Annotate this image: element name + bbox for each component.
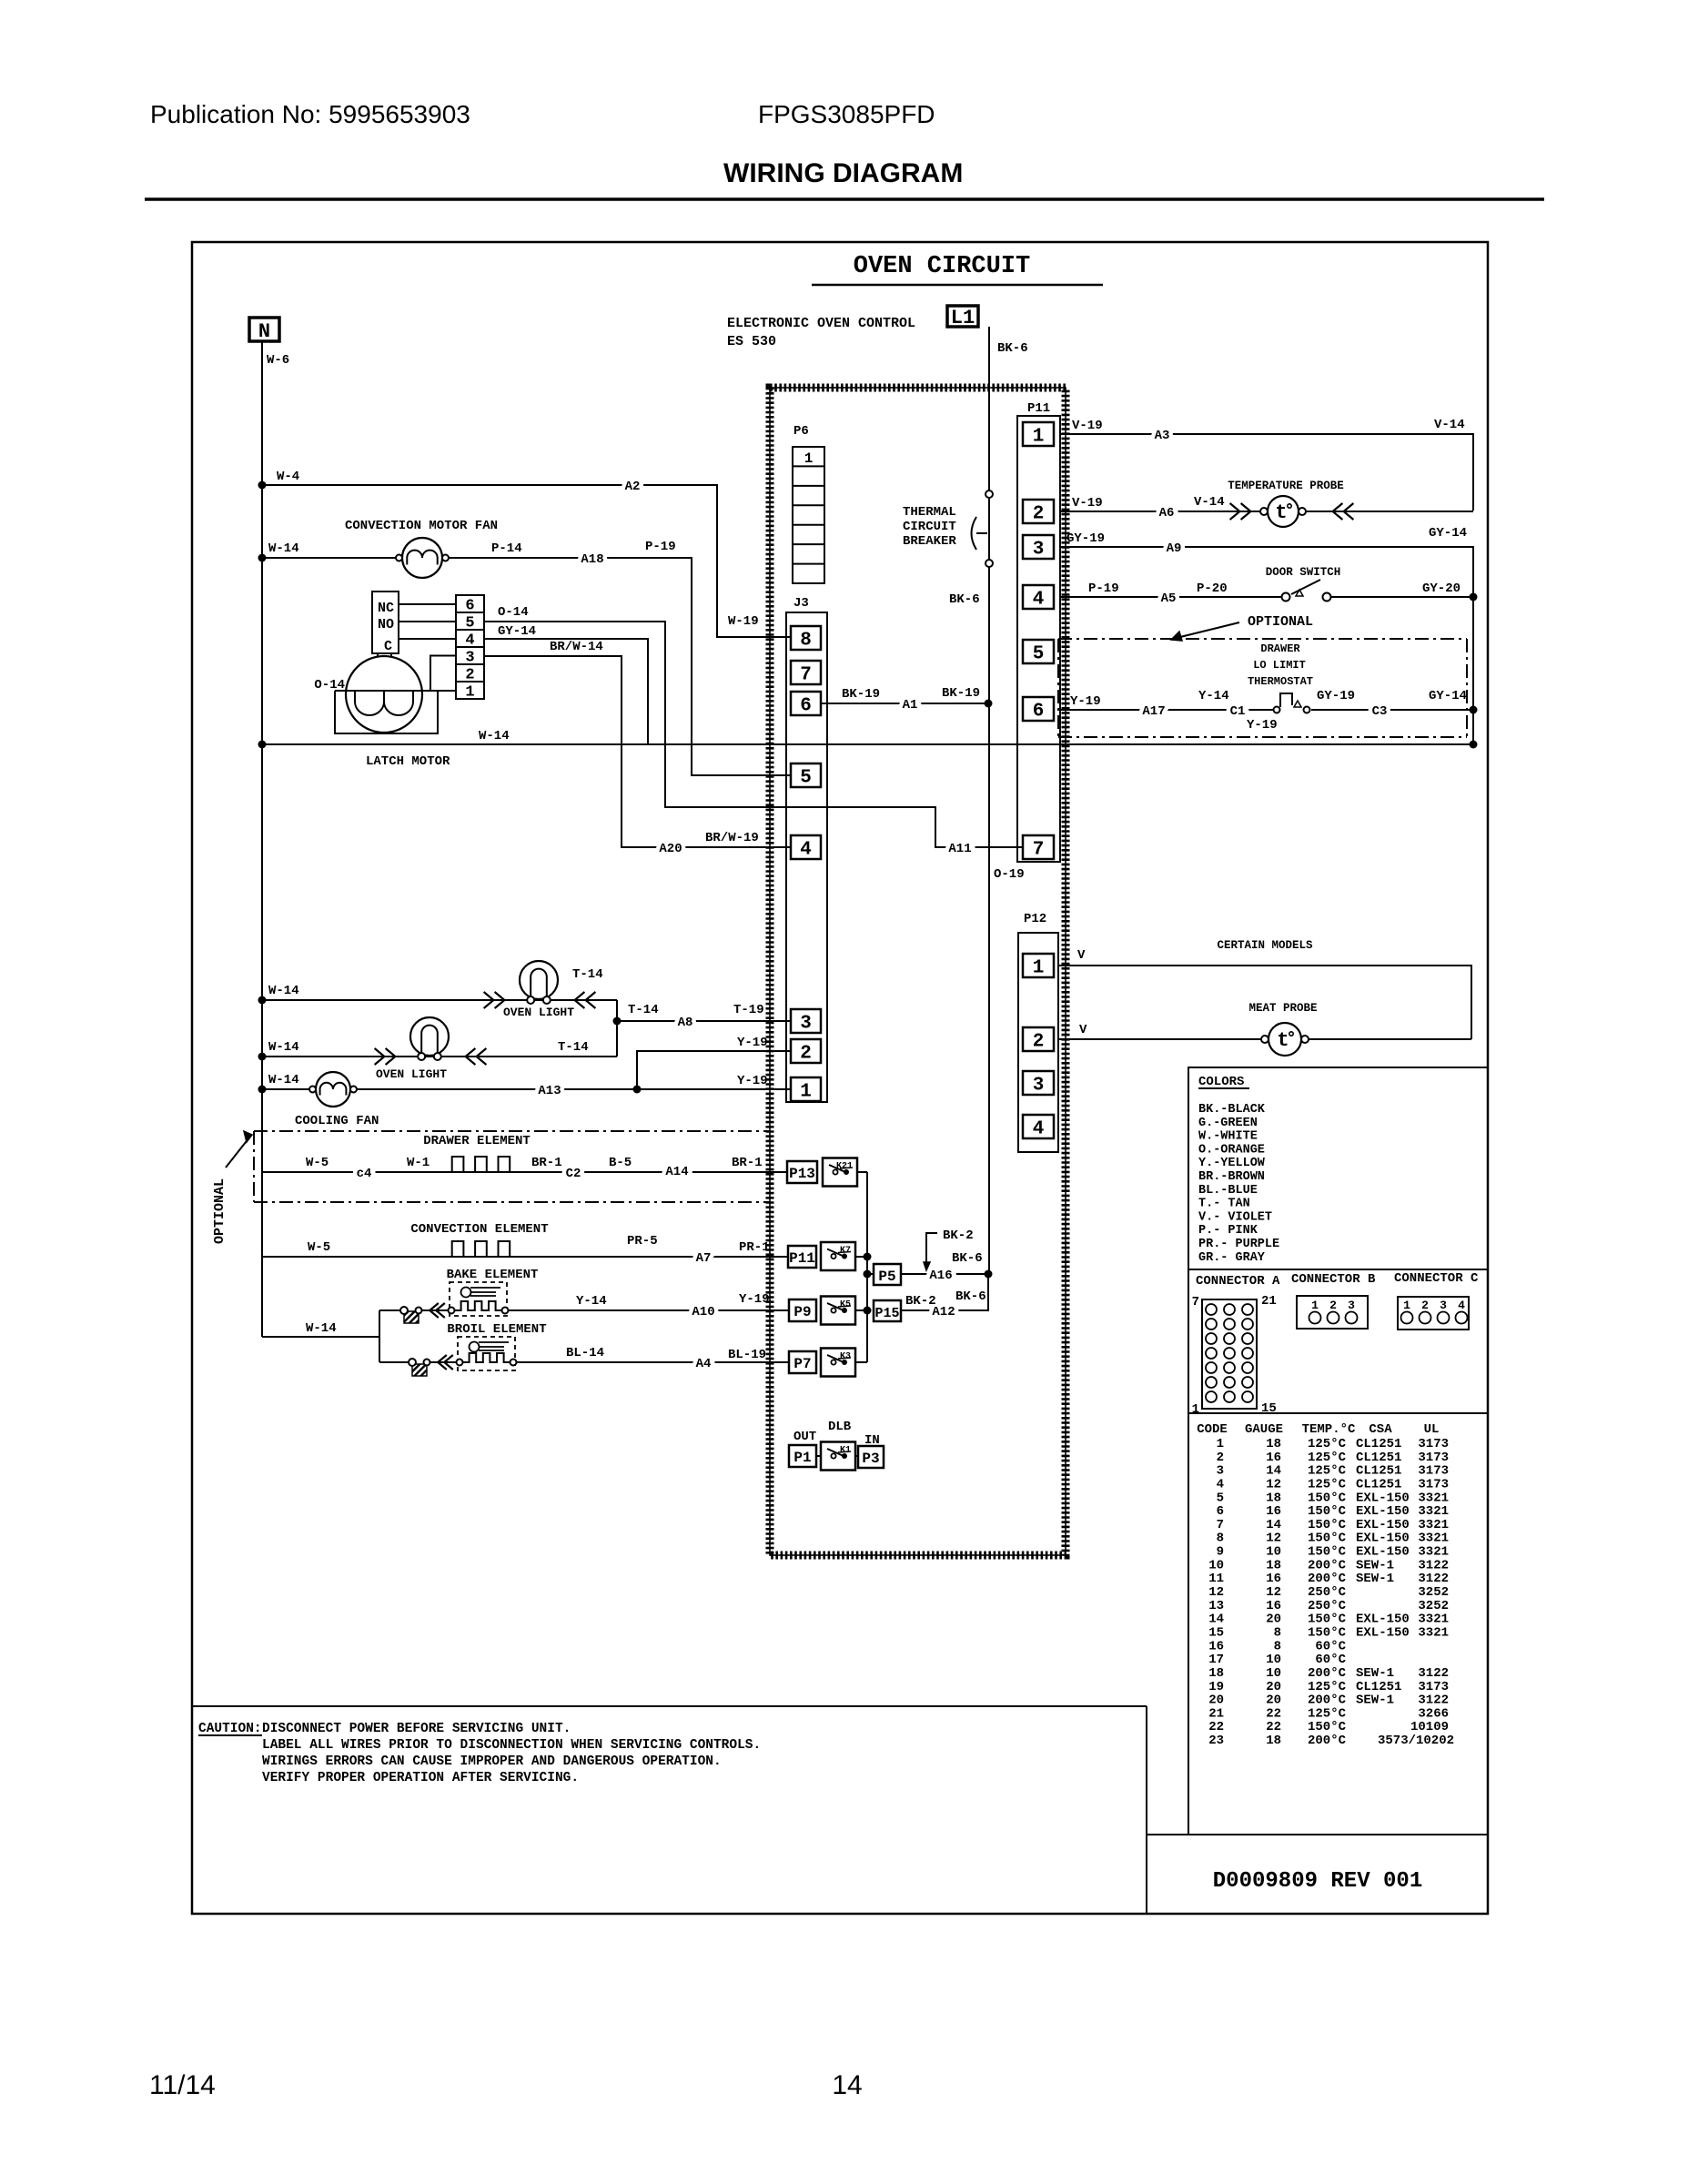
wire W-6 left bus [262,341,289,1337]
svg-text:A8: A8 [678,1016,693,1030]
svg-text:20: 20 [1208,1694,1224,1708]
OVEN CIRCUIT title [812,253,1103,285]
svg-text:3122: 3122 [1418,1694,1449,1708]
svg-text:W-14: W-14 [268,984,299,998]
svg-text:CODE: CODE [1197,1422,1228,1437]
svg-text:W.-WHITE: W.-WHITE [1198,1130,1258,1144]
svg-text:6: 6 [465,597,474,614]
svg-text:3173: 3173 [1418,1680,1449,1694]
svg-text:Y-14: Y-14 [1198,689,1229,703]
svg-text:THERMOSTAT: THERMOSTAT [1248,675,1313,688]
main border [192,242,1488,1914]
svg-text:3: 3 [465,649,474,666]
svg-text:W-14: W-14 [268,1073,299,1087]
door switch [1266,566,1341,602]
svg-text:EXL-150: EXL-150 [1356,1504,1410,1519]
svg-text:Y-19: Y-19 [1247,718,1278,733]
wire W-14 oven light 1 / T-14 [258,967,659,1057]
svg-text:4: 4 [1033,1119,1045,1140]
svg-text:COOLING FAN: COOLING FAN [295,1114,379,1128]
svg-text:T-14: T-14 [572,967,603,982]
svg-text:125°C: 125°C [1308,1477,1347,1491]
svg-text:PR-1: PR-1 [739,1240,770,1255]
svg-text:C: C [384,639,392,654]
svg-text:3: 3 [1217,1464,1224,1479]
plug P5 [867,1264,901,1285]
svg-text:P-20: P-20 [1197,581,1228,596]
colors list [1198,1075,1279,1265]
wire cell3 to latch motor [430,656,456,692]
svg-text:9: 9 [1217,1545,1224,1560]
svg-text:Y-19: Y-19 [737,1036,768,1050]
svg-text:O.-ORANGE: O.-ORANGE [1198,1143,1265,1157]
svg-text:20: 20 [1266,1613,1281,1627]
svg-text:A2: A2 [625,480,641,494]
J3 pin 5 [791,763,821,787]
svg-text:4: 4 [1458,1299,1465,1312]
svg-text:19: 19 [1208,1680,1224,1694]
svg-text:A6: A6 [1159,506,1175,521]
cooling fan [295,1072,379,1128]
svg-text:125°C: 125°C [1308,1706,1347,1721]
wire W-4/A2 to J3 pin 8 [258,470,792,637]
svg-text:WIRING DIAGRAM: WIRING DIAGRAM [723,158,963,188]
svg-text:3321: 3321 [1418,1625,1449,1640]
svg-text:DISCONNECT POWER BEFORE SERVIC: DISCONNECT POWER BEFORE SERVICING UNIT. [262,1722,571,1736]
svg-text:P12: P12 [1024,912,1046,926]
footer date 11/14 [149,2070,216,2100]
svg-text:A10: A10 [692,1305,714,1319]
svg-text:8: 8 [1274,1639,1281,1653]
svg-text:C2: C2 [566,1167,581,1181]
P11 pin 4 [1023,585,1054,609]
svg-text:CONNECTOR A: CONNECTOR A [1196,1274,1280,1289]
svg-text:1: 1 [800,1082,812,1103]
svg-text:22: 22 [1266,1720,1281,1734]
svg-text:16: 16 [1266,1504,1281,1519]
svg-text:150°C: 150°C [1308,1545,1347,1560]
svg-text:150°C: 150°C [1308,1613,1347,1627]
svg-text:OPTIONAL: OPTIONAL [1248,614,1313,630]
svg-text:LABEL ALL WIRES PRIOR TO DISCO: LABEL ALL WIRES PRIOR TO DISCONNECTION W… [262,1738,761,1753]
svg-text:16: 16 [1266,1599,1281,1613]
P11 pin 2 [1023,500,1054,523]
svg-text:BR/W-19: BR/W-19 [705,831,759,845]
header rule [145,197,1544,201]
svg-text:SEW-1: SEW-1 [1356,1666,1394,1681]
svg-text:V-14: V-14 [1434,418,1465,432]
svg-text:250°C: 250°C [1308,1585,1347,1600]
svg-text:W-5: W-5 [308,1240,330,1255]
svg-text:SEW-1: SEW-1 [1356,1694,1394,1708]
svg-text:12: 12 [1208,1585,1224,1600]
BK-2 pointer [924,1228,974,1270]
svg-text:BK-6: BK-6 [955,1289,986,1304]
svg-text:SEW-1: SEW-1 [1356,1572,1394,1586]
wire BR/W-14 latch pin3 / A20 / BR/W-19 to J3 pin4 [484,640,791,856]
wire BK-6 from L1 [989,327,1028,490]
P11 pin 6 [1023,697,1054,721]
svg-text:DRAWER: DRAWER [1260,642,1300,655]
svg-text:3321: 3321 [1418,1491,1449,1505]
connector P6 [793,424,824,583]
svg-text:3122: 3122 [1418,1558,1449,1572]
connector P12 [1018,912,1058,1152]
svg-text:V-19: V-19 [1072,496,1103,511]
svg-text:12: 12 [1266,1585,1281,1600]
svg-text:GAUGE: GAUGE [1245,1422,1283,1437]
svg-text:200°C: 200°C [1308,1694,1347,1708]
svg-text:3321: 3321 [1418,1532,1449,1546]
svg-text:7: 7 [1217,1518,1224,1532]
svg-text:14: 14 [1208,1613,1224,1627]
svg-text:1: 1 [1311,1299,1319,1312]
svg-text:200°C: 200°C [1308,1558,1347,1572]
svg-text:V.- VIOLET: V.- VIOLET [1198,1210,1272,1224]
J3 pin 8 [791,626,821,650]
svg-text:150°C: 150°C [1308,1720,1347,1734]
svg-text:125°C: 125°C [1308,1680,1347,1694]
svg-text:Y-19: Y-19 [1070,694,1101,709]
svg-text:A1: A1 [903,698,918,713]
svg-text:GY-19: GY-19 [1317,689,1355,703]
svg-text:2: 2 [465,666,474,683]
P11 pin 7 [1023,835,1054,859]
svg-text:4: 4 [1217,1477,1224,1491]
svg-text:LO LIMIT: LO LIMIT [1253,659,1306,672]
wire GY-14 latch pin4 [484,624,648,744]
svg-text:10: 10 [1208,1558,1224,1572]
svg-text:GY-20: GY-20 [1422,581,1461,596]
relay K5 [821,1297,855,1325]
convection element [410,1222,548,1257]
svg-text:60°C: 60°C [1315,1653,1346,1667]
node N [249,318,279,343]
P12 pin 3 [1023,1071,1054,1095]
svg-text:16: 16 [1208,1639,1224,1653]
svg-text:18: 18 [1266,1558,1281,1572]
svg-text:W-5: W-5 [306,1156,329,1170]
plug P9 [789,1299,816,1321]
wire BK-6 below breaker [949,567,1025,1274]
svg-text:14: 14 [1266,1518,1281,1532]
svg-text:3173: 3173 [1418,1451,1449,1465]
svg-text:200°C: 200°C [1308,1734,1347,1748]
wire V P12 pin1 certain models [1058,939,1471,1039]
svg-text:EXL-150: EXL-150 [1356,1518,1410,1532]
svg-text:W-1: W-1 [407,1156,430,1170]
svg-text:10: 10 [1266,1666,1281,1681]
svg-text:3: 3 [1033,540,1045,561]
svg-text:20: 20 [1266,1680,1281,1694]
svg-text:P3: P3 [862,1451,879,1467]
svg-text:14: 14 [832,2070,862,2100]
svg-text:A18: A18 [581,552,603,567]
svg-text:DRAWER ELEMENT: DRAWER ELEMENT [423,1134,531,1148]
svg-text:GY-14: GY-14 [1429,689,1467,703]
svg-text:1: 1 [465,683,474,701]
svg-text:CONNECTOR C: CONNECTOR C [1394,1271,1479,1286]
svg-text:WIRINGS ERRORS CAN CAUSE IMPRO: WIRINGS ERRORS CAN CAUSE IMPROPER AND DA… [262,1754,722,1769]
svg-text:12: 12 [1266,1477,1281,1491]
svg-text:18: 18 [1208,1666,1224,1681]
svg-text:BAKE ELEMENT: BAKE ELEMENT [447,1268,539,1282]
svg-text:7: 7 [800,665,812,686]
svg-text:C3: C3 [1372,704,1388,719]
OPTIONAL pointer right [1171,614,1313,641]
wire GY-19/A9/GY-14 P11 pin3 [1060,526,1473,744]
svg-text:W-19: W-19 [728,614,759,629]
latch relay contacts NC NO C [372,591,456,657]
svg-text:BK.-BLACK: BK.-BLACK [1198,1103,1266,1117]
wire O-14 latch pin5 to A11/P11 pin7 [484,605,1023,856]
svg-text:3: 3 [1348,1299,1355,1312]
svg-text:23: 23 [1208,1734,1224,1748]
svg-text:1: 1 [804,450,814,467]
svg-text:A11: A11 [948,842,971,856]
document number box D0009809 REV 001 [1147,1835,1488,1894]
svg-text:V: V [1077,948,1086,963]
svg-text:18: 18 [1266,1491,1281,1505]
P11 pin 1 [1023,422,1054,446]
svg-text:BL-14: BL-14 [566,1346,604,1360]
svg-text:OVEN LIGHT: OVEN LIGHT [503,1006,574,1019]
wire V P12 pin2 meat probe [1058,1023,1471,1039]
svg-text:CL1251: CL1251 [1356,1437,1401,1451]
svg-text:P-19: P-19 [1088,581,1119,596]
svg-text:18: 18 [1266,1437,1281,1451]
footer page 14 [832,2070,862,2100]
svg-text:SEW-1: SEW-1 [1356,1558,1394,1572]
caution note [193,1706,1147,1914]
svg-text:THERMAL: THERMAL [903,505,956,520]
svg-text:OVEN LIGHT: OVEN LIGHT [376,1067,447,1081]
svg-text:P.- PINK: P.- PINK [1198,1224,1258,1238]
plug P7 [789,1351,816,1373]
svg-text:22: 22 [1266,1706,1281,1721]
wire BL-14/A4/BL-19 broil to P7 [516,1346,789,1371]
svg-text:12: 12 [1266,1532,1281,1546]
svg-text:1: 1 [1217,1437,1224,1451]
svg-text:OPTIONAL: OPTIONAL [212,1178,227,1244]
svg-text:W-14: W-14 [268,541,299,556]
svg-text:CONVECTION MOTOR FAN: CONVECTION MOTOR FAN [345,519,498,533]
svg-text:A9: A9 [1167,541,1182,556]
svg-text:CAUTION:: CAUTION: [198,1722,262,1736]
svg-text:5: 5 [1033,644,1045,665]
model number FPGS3085PFD [758,100,935,128]
relay K1 [821,1442,858,1471]
svg-text:P5: P5 [878,1269,895,1285]
svg-text:NO: NO [378,617,394,632]
J3 pin 2 [791,1039,821,1063]
svg-text:MEAT PROBE: MEAT PROBE [1248,1002,1317,1015]
svg-text:3321: 3321 [1418,1518,1449,1532]
svg-text:BK-6: BK-6 [952,1251,983,1266]
drawer lo limit thermostat symbol [1274,693,1310,713]
svg-text:2: 2 [1033,504,1045,525]
svg-text:CERTAIN MODELS: CERTAIN MODELS [1217,939,1313,952]
thermal circuit breaker [903,490,993,567]
svg-text:A17: A17 [1142,704,1165,719]
svg-text:V-14: V-14 [1194,495,1225,510]
J3 pin 3 [791,1009,821,1033]
svg-text:Y.-YELLOW: Y.-YELLOW [1198,1157,1266,1170]
svg-text:8: 8 [800,631,812,652]
plug P15 [874,1300,901,1321]
svg-text:DOOR SWITCH: DOOR SWITCH [1266,566,1341,579]
svg-text:BK-19: BK-19 [942,686,980,701]
svg-text:6: 6 [800,696,812,717]
wire gauge table [1197,1422,1454,1748]
svg-text:A13: A13 [538,1084,561,1098]
svg-text:P6: P6 [793,424,809,439]
svg-text:8: 8 [1217,1532,1224,1546]
svg-text:OVEN CIRCUIT: OVEN CIRCUIT [854,253,1030,280]
drawer lo limit thermostat box [1058,639,1467,737]
svg-text:BK-19: BK-19 [842,687,880,702]
svg-text:13: 13 [1208,1599,1224,1613]
svg-text:W-6: W-6 [267,353,289,368]
svg-text:EXL-150: EXL-150 [1356,1613,1410,1627]
svg-text:P9: P9 [793,1304,811,1320]
P12 pin 1 [1023,954,1054,977]
wire BK-19/A1 J3 pin6 to BK-6 node [821,686,993,713]
svg-text:15: 15 [1261,1401,1277,1416]
svg-text:CL1251: CL1251 [1356,1464,1401,1479]
svg-text:PR.- PURPLE: PR.- PURPLE [1198,1238,1279,1251]
svg-text:LATCH MOTOR: LATCH MOTOR [366,754,450,769]
svg-text:D0009809 REV 001: D0009809 REV 001 [1213,1869,1422,1894]
svg-text:ES 530: ES 530 [727,334,776,349]
svg-text:ELECTRONIC OVEN CONTROL: ELECTRONIC OVEN CONTROL [727,316,915,331]
svg-text:GR.- GRAY: GR.- GRAY [1198,1251,1266,1265]
svg-text:A16: A16 [929,1269,952,1283]
plug P3 [858,1446,884,1468]
svg-text:7: 7 [1192,1295,1199,1309]
svg-text:Y-19: Y-19 [739,1292,770,1307]
svg-text:T-14: T-14 [628,1003,659,1017]
svg-text:250°C: 250°C [1308,1599,1347,1613]
svg-text:CIRCUIT: CIRCUIT [903,520,956,534]
svg-text:BR-1: BR-1 [732,1156,763,1170]
svg-text:11: 11 [1208,1572,1224,1586]
wire A8/T-19 to J3 pin3 [613,1003,792,1030]
svg-text:20: 20 [1266,1694,1281,1708]
svg-text:16: 16 [1266,1451,1281,1465]
svg-text:C1: C1 [1230,704,1246,719]
plug P11 (relay) [788,1246,816,1268]
svg-text:W-4: W-4 [277,470,299,484]
svg-text:TEMP.°C: TEMP.°C [1302,1422,1356,1437]
svg-text:7: 7 [1033,840,1045,861]
drawer element [423,1134,531,1172]
P12 pin 2 [1023,1027,1054,1051]
connector P11 [1017,401,1060,862]
oven light 2 [376,1017,449,1081]
wire BK-2/A12/BK-6 [901,1274,988,1319]
svg-text:4: 4 [800,840,812,861]
svg-text:21: 21 [1261,1294,1277,1309]
plug P13 [787,1161,817,1183]
oven light 1 [503,961,574,1019]
svg-text:COLORS: COLORS [1198,1075,1244,1089]
svg-text:2: 2 [1217,1451,1224,1465]
svg-text:Y-14: Y-14 [576,1294,607,1309]
svg-text:Publication No: 5995653903: Publication No: 5995653903 [150,100,470,128]
latch motor connector pins 6..1 [456,595,484,701]
connector A [1192,1274,1280,1417]
svg-text:3122: 3122 [1418,1572,1449,1586]
svg-text:T.- TAN: T.- TAN [1198,1198,1250,1211]
node L1 [947,306,978,329]
svg-text:10: 10 [1266,1653,1281,1667]
svg-text:3252: 3252 [1418,1585,1449,1600]
svg-text:A3: A3 [1155,429,1170,443]
svg-text:P-14: P-14 [491,541,522,556]
svg-text:EXL-150: EXL-150 [1356,1625,1410,1640]
svg-text:BR-1: BR-1 [531,1156,562,1170]
svg-text:A20: A20 [659,842,682,856]
svg-text:BK-6: BK-6 [997,341,1028,356]
DLB double line break [793,1420,880,1448]
svg-text:5: 5 [1217,1491,1224,1505]
svg-text:CL1251: CL1251 [1356,1451,1401,1465]
svg-text:L1: L1 [951,307,975,329]
wire W-14 / P-14 / A18 / P-19 to J3 pin 5 [258,540,792,775]
svg-text:W-14: W-14 [268,1040,299,1055]
svg-text:2: 2 [1329,1299,1337,1312]
svg-text:DLB: DLB [828,1420,852,1434]
convection motor fan [345,519,498,578]
svg-text:BK-2: BK-2 [905,1294,936,1309]
svg-text:CL1251: CL1251 [1356,1477,1401,1491]
svg-text:150°C: 150°C [1308,1625,1347,1640]
svg-text:BK-2: BK-2 [943,1228,974,1243]
relay K7 [821,1242,855,1270]
svg-text:t: t [1275,501,1287,524]
svg-text:125°C: 125°C [1308,1451,1347,1465]
svg-text:W-14: W-14 [479,729,510,743]
wire A16 / BK-6 [901,1251,993,1283]
svg-text:A7: A7 [696,1251,712,1266]
svg-text:200°C: 200°C [1308,1666,1347,1681]
wire W-5 convection element PR-5/A7/PR-1 [262,1234,788,1266]
svg-text:200°C: 200°C [1308,1572,1347,1586]
svg-text:3122: 3122 [1418,1666,1449,1681]
P11 pin 3 [1023,535,1054,559]
svg-text:60°C: 60°C [1315,1639,1346,1653]
svg-text:A4: A4 [696,1357,712,1371]
svg-text:GY-19: GY-19 [1066,531,1105,546]
svg-text:Y-19: Y-19 [737,1074,768,1088]
svg-text:150°C: 150°C [1308,1491,1347,1505]
svg-text:3: 3 [1440,1299,1447,1312]
svg-text:3252: 3252 [1418,1599,1449,1613]
svg-text:3173: 3173 [1418,1477,1449,1491]
relay K3 [821,1349,855,1377]
svg-text:P7: P7 [793,1356,811,1372]
svg-text:CONVECTION ELEMENT: CONVECTION ELEMENT [410,1222,548,1237]
wire W-14 feed to bake/broil [262,1310,409,1362]
svg-text:16: 16 [1266,1572,1281,1586]
wire W-14 oven light 2 / T-14 [258,1040,618,1065]
plug P1 [789,1445,821,1467]
svg-text:T-19: T-19 [733,1003,764,1017]
svg-text:6: 6 [1033,702,1045,723]
svg-text:BREAKER: BREAKER [903,534,956,549]
svg-text:1: 1 [1403,1299,1410,1312]
